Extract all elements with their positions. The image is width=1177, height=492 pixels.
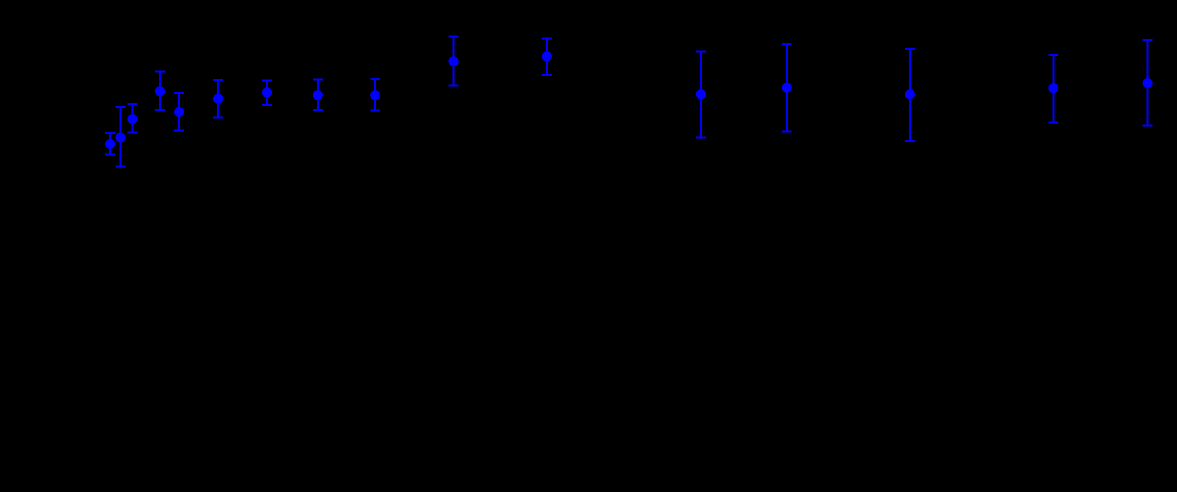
data point 1: marker with error bar (105, 133, 115, 154)
data point 4: marker with error bar (155, 71, 165, 110)
data point 15: marker with error bar (1048, 55, 1058, 123)
data point 16: marker with error bar (1143, 40, 1153, 126)
data point 6: marker with error bar (213, 80, 223, 118)
data point 11: marker with error bar (542, 39, 552, 75)
data point 2: marker with error bar (115, 107, 125, 167)
data point 14: marker with error bar (905, 49, 915, 141)
data point 10: marker with error bar (449, 36, 459, 85)
data point 5: marker with error bar (174, 93, 184, 131)
data point 9: marker with error bar (370, 79, 380, 110)
data point 12: marker with error bar (696, 52, 706, 138)
data point 7: marker with error bar (262, 80, 272, 105)
data point 8: marker with error bar (313, 80, 323, 111)
data point 3: marker with error bar (127, 104, 137, 133)
data point 13: marker with error bar (782, 44, 792, 132)
